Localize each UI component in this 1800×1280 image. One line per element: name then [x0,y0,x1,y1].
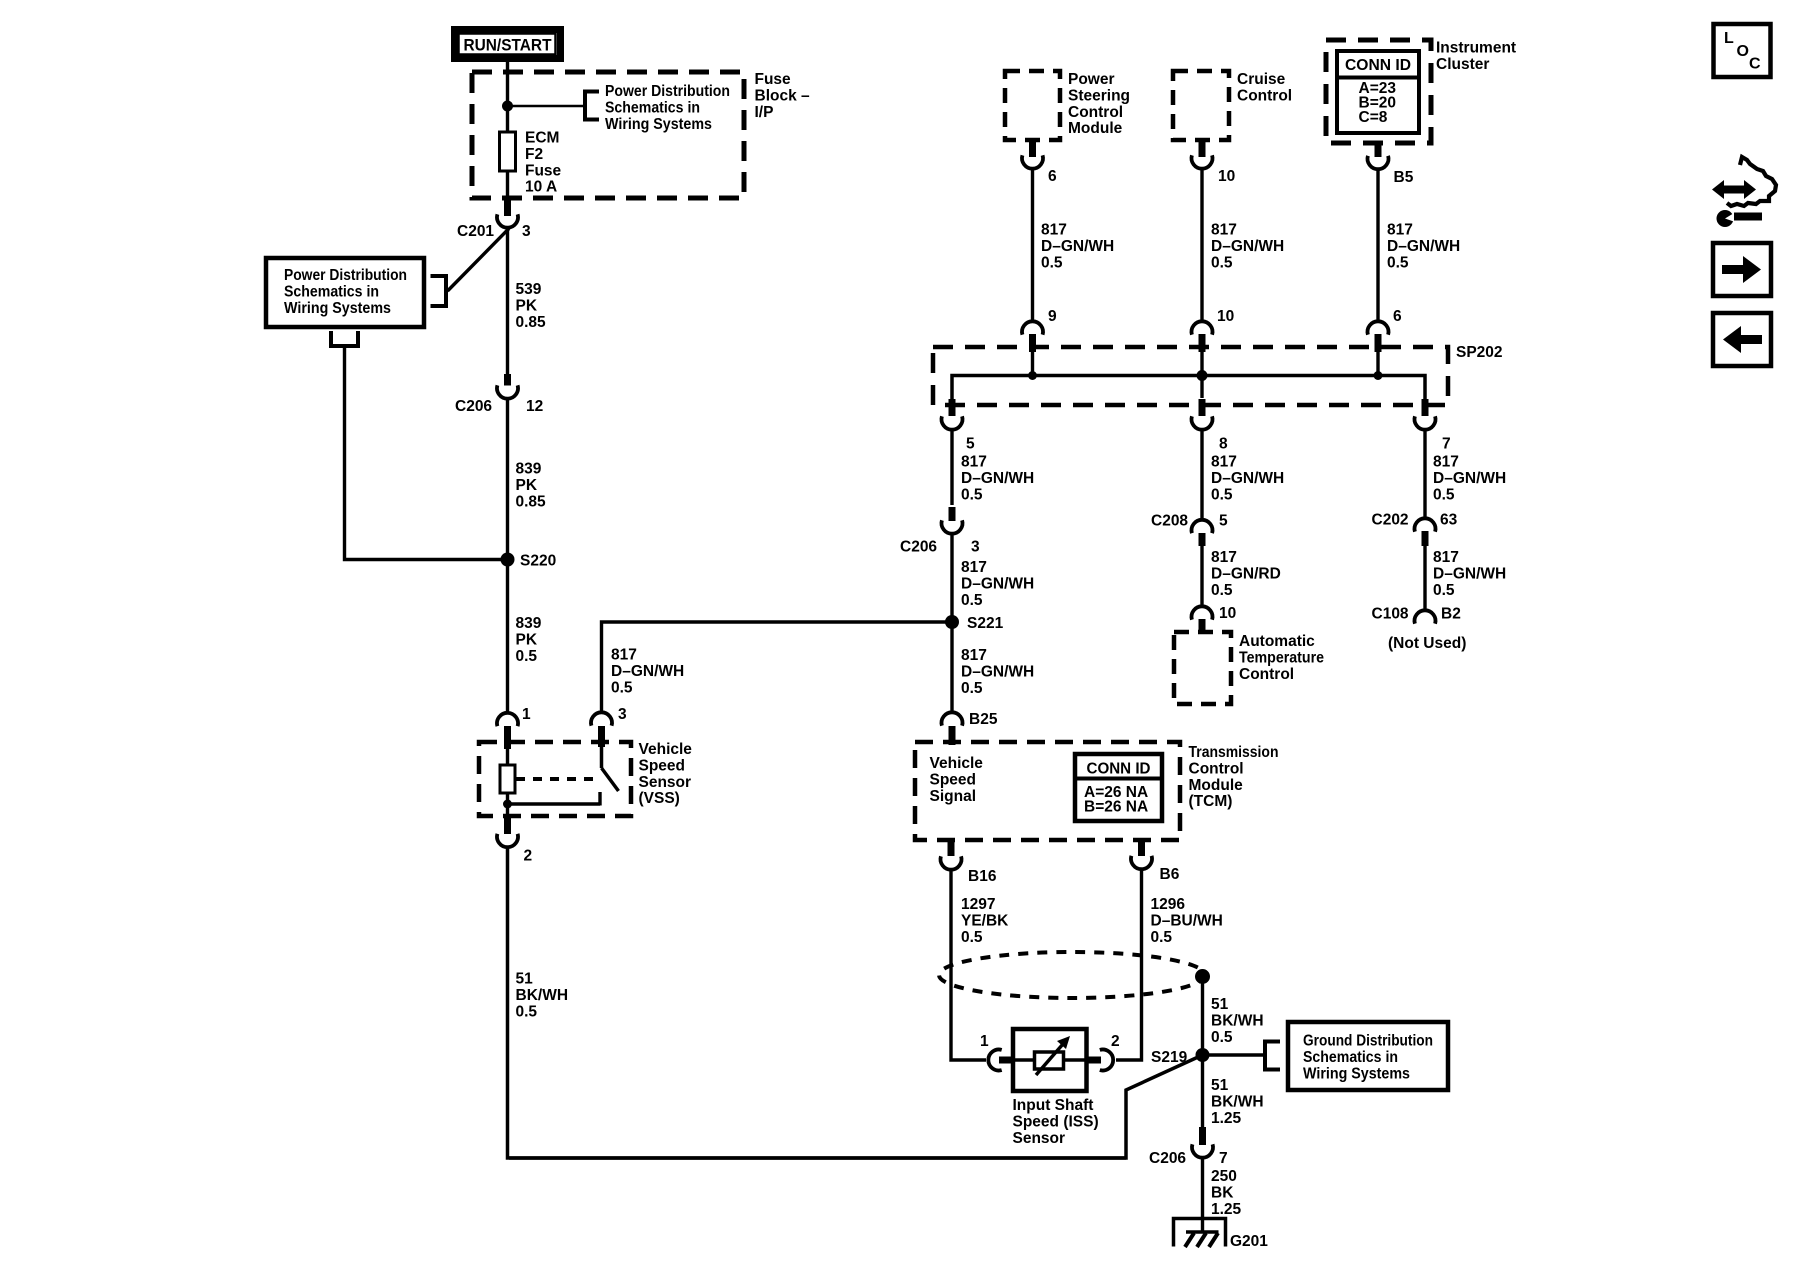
svg-text:250: 250 [1211,1168,1237,1185]
svg-text:9: 9 [1048,308,1057,325]
connector TCM pin B16 [941,839,997,885]
svg-text:7: 7 [1442,436,1451,453]
svg-text:D–GN/WH: D–GN/WH [1433,470,1506,487]
svg-text:Vehicle: Vehicle [930,755,984,772]
svg-text:L: L [1724,30,1734,47]
connector C201 pin 3 [457,198,531,240]
svg-text:0.5: 0.5 [1211,582,1233,599]
icon powertrain reference [1712,157,1776,227]
svg-text:Sensor: Sensor [1013,1130,1066,1147]
svg-text:3: 3 [618,706,627,723]
splice pack SP202 dashed box [933,344,1503,405]
svg-text:817: 817 [1211,222,1237,239]
svg-text:0.5: 0.5 [516,1003,538,1020]
svg-text:817: 817 [1433,454,1459,471]
icon back arrow box [1713,313,1771,366]
table CONN ID (TCM) [1075,754,1162,821]
svg-text:Input Shaft: Input Shaft [1013,1097,1094,1114]
node fuse block tap junction [502,101,513,112]
svg-text:817: 817 [961,559,987,576]
module Power Steering Control dashed box [1005,71,1130,140]
svg-text:PK: PK [516,297,538,314]
svg-text:5: 5 [966,436,975,453]
connector C108 pin B2 (not used) [1372,606,1467,653]
svg-text:Block –: Block – [755,87,811,104]
module Transmission Control Module dashed box [915,742,1279,840]
svg-text:0.5: 0.5 [611,679,633,696]
connector ISS pin 2 [1087,1033,1120,1071]
svg-text:(TCM): (TCM) [1189,793,1233,810]
node SP202 junction 9 [1028,371,1037,380]
svg-text:6: 6 [1393,308,1402,325]
svg-text:Wiring Systems: Wiring Systems [1303,1065,1410,1082]
connector C206 pin 3 [900,507,980,556]
svg-text:0.5: 0.5 [1151,929,1173,946]
svg-text:Control: Control [1239,666,1294,683]
connector SP202 pin 6 [1368,308,1403,352]
wire 1296 D-BU/WH 0.5 (B6 to ISS pin2) [1116,869,1223,1060]
connector SP202 pin 9 [1022,308,1057,352]
svg-text:C108: C108 [1372,606,1409,623]
svg-text:Schematics in: Schematics in [1303,1049,1398,1066]
svg-text:Speed (ISS): Speed (ISS) [1013,1113,1099,1130]
svg-text:S221: S221 [967,615,1004,632]
svg-text:2: 2 [524,848,533,865]
svg-text:0.5: 0.5 [961,929,983,946]
svg-text:7: 7 [1219,1150,1228,1167]
wire 817 D-GN/WH 0.5 (SP202-5 to C206) [952,430,1034,506]
svg-text:C206: C206 [900,539,937,556]
svg-text:C: C [1749,56,1761,73]
svg-text:Speed: Speed [639,757,686,774]
resistor VSS sense element [500,765,515,793]
wire 839 PK 0.85 [508,399,547,561]
svg-text:S220: S220 [520,553,556,570]
svg-text:2: 2 [1111,1033,1120,1050]
connector C206 pin 7 [1149,1127,1228,1167]
svg-text:D–GN/WH: D–GN/WH [611,663,684,680]
wire S219 to bottom return run [509,1055,1203,1158]
svg-text:B2: B2 [1441,606,1461,623]
svg-text:3: 3 [971,539,980,556]
svg-text:Vehicle: Vehicle [639,741,693,758]
wire VSS resistor to common [506,793,509,818]
svg-text:Signal: Signal [930,788,977,805]
wire 817 D-GN/WH 0.5 (SP202-7 to C202) [1425,430,1506,519]
svg-text:Speed: Speed [930,771,977,788]
svg-text:3: 3 [522,223,531,240]
svg-text:B6: B6 [1160,866,1180,883]
wire 817 D-GN/WH 0.5 (power steering to SP202) [1033,169,1115,322]
wire 817 D-GN/RD 0.5 (C208 to ATC) [1202,546,1281,607]
wire 817 D-GN/WH 0.5 (SP202-8 to C208) [1202,430,1284,521]
svg-text:10: 10 [1219,605,1236,622]
wire reference box to S220 [345,346,505,560]
svg-text:1296: 1296 [1151,896,1186,913]
wire 817 D-GN/WH 0.5 (S221 to B25) [952,622,1034,713]
node shield drain junction [1195,969,1210,984]
svg-text:817: 817 [1041,222,1067,239]
svg-text:817: 817 [1387,222,1413,239]
svg-text:0.85: 0.85 [516,493,547,510]
svg-text:10: 10 [1217,308,1234,325]
reference box Ground Distribution Schematics [1288,1022,1448,1090]
svg-text:C202: C202 [1372,512,1409,529]
connector VSS pin 1 [497,706,531,749]
svg-text:D–GN/WH: D–GN/WH [1211,470,1284,487]
svg-text:D–GN/WH: D–GN/WH [1387,238,1460,255]
svg-text:BK/WH: BK/WH [1211,1012,1264,1029]
svg-text:0.5: 0.5 [1211,1029,1233,1046]
svg-text:0.5: 0.5 [961,592,983,609]
connector SP202 pin 10 [1192,308,1235,352]
switch VSS reed contact [602,745,619,791]
module Automatic Temperature Control dashed box [1174,632,1324,704]
svg-text:B5: B5 [1394,169,1414,186]
svg-text:CONN ID: CONN ID [1345,57,1411,74]
svg-text:1297: 1297 [961,896,995,913]
wire 1297 YE/BK 0.5 (B16 to ISS pin1) [951,870,1009,1061]
reference box Power Distribution Schematics [266,258,424,327]
svg-text:C208: C208 [1151,513,1188,530]
svg-text:SP202: SP202 [1456,344,1503,361]
svg-text:817: 817 [961,647,987,664]
sensor Input Shaft Speed ISS box [1013,1029,1099,1147]
shield twisted pair dashed loop [939,952,1205,998]
svg-text:0.5: 0.5 [961,680,983,697]
reference tab below Power Distribution box [329,331,360,346]
connector ISS pin 1 [980,1033,1014,1071]
svg-text:D–GN/WH: D–GN/WH [961,470,1034,487]
svg-text:0.5: 0.5 [961,486,983,503]
reference tab right of Power Distribution box [431,276,447,306]
svg-text:D–GN/WH: D–GN/WH [1041,238,1114,255]
svg-text:0.5: 0.5 [1041,254,1063,271]
wire 817 D-GN/WH 0.5 (C206 to S221) [952,534,1034,623]
svg-text:51: 51 [1211,996,1229,1013]
svg-text:BK: BK [1211,1184,1234,1201]
svg-text:817: 817 [1211,549,1237,566]
linkage VSS dashed coupling [516,777,597,781]
wire VSS pin1 lead [506,746,509,766]
svg-text:PK: PK [516,477,538,494]
connector SP202 pin 5 [942,399,976,453]
connector TCM pin B6 [1131,839,1180,883]
svg-text:6: 6 [1048,168,1057,185]
svg-text:ECM: ECM [525,130,559,147]
svg-text:51: 51 [1211,1077,1229,1094]
svg-text:Cluster: Cluster [1436,56,1489,73]
svg-text:12: 12 [526,398,543,415]
svg-text:Power Distribution: Power Distribution [284,267,407,284]
svg-text:D–GN/RD: D–GN/RD [1211,565,1281,582]
svg-text:Wiring Systems: Wiring Systems [284,300,391,317]
svg-text:C=8: C=8 [1359,109,1388,126]
module Cruise Control dashed box [1173,71,1292,140]
svg-text:1.25: 1.25 [1211,1201,1242,1218]
svg-text:C201: C201 [457,223,494,240]
fuse F2 ECM 10A [500,130,562,196]
svg-text:D–BU/WH: D–BU/WH [1151,912,1223,929]
svg-text:C206: C206 [455,398,492,415]
connector VSS pin 3 [591,706,627,747]
svg-text:B16: B16 [968,868,997,885]
wire 51 BK/WH 0.5 (VSS pin2 to splice) [508,847,1127,1158]
svg-text:Schematics in: Schematics in [284,283,379,300]
wire 539 PK 0.85 [508,228,547,377]
reference tab Power Distribution (in fuse block) [585,83,730,133]
svg-text:8: 8 [1219,436,1228,453]
wire 817 D-GN/WH 0.5 (cruise to SP202) [1202,169,1284,322]
svg-text:G201: G201 [1230,1233,1268,1250]
svg-text:817: 817 [961,454,987,471]
svg-text:839: 839 [516,615,542,632]
connector TCM pin B25 [942,711,998,745]
wire 817 D-GN/WH 0.5 (C202 to C108) [1425,544,1506,611]
svg-text:Cruise: Cruise [1237,71,1286,88]
svg-text:C206: C206 [1149,1150,1186,1167]
svg-text:Transmission: Transmission [1189,744,1279,761]
resistor ISS variable element [1013,1036,1087,1075]
svg-text:PK: PK [516,631,538,648]
svg-text:F2: F2 [525,146,543,163]
connector SP202 pin 8 [1192,399,1228,453]
svg-text:0.5: 0.5 [1387,254,1409,271]
svg-text:(Not Used): (Not Used) [1388,635,1466,652]
svg-text:1: 1 [980,1033,989,1050]
svg-text:10 A: 10 A [525,179,557,196]
wire 817 D-GN/WH 0.5 (VSS to S221) [602,622,950,713]
wire RUN/START to fuse F2 [506,62,509,133]
node SP202 junction 10 [1197,370,1208,381]
wire 817 D-GN/WH 0.5 (cluster to SP202) [1378,169,1460,322]
svg-text:B25: B25 [969,711,998,728]
svg-text:Schematics in: Schematics in [605,99,700,116]
module Instrument Cluster dashed box [1326,40,1516,144]
svg-text:D–GN/WH: D–GN/WH [1433,565,1506,582]
wire reference tab to C201 splice [448,229,510,292]
svg-text:YE/BK: YE/BK [961,912,1009,929]
svg-text:51: 51 [516,971,534,988]
svg-text:D–GN/WH: D–GN/WH [961,575,1034,592]
switch RUN/START (ignition feed) [455,30,561,59]
svg-text:0.85: 0.85 [516,314,547,331]
wire 51 BK/WH 1.25 (S219 to C206) [1203,1055,1264,1128]
svg-text:RUN/START: RUN/START [464,37,552,55]
svg-text:Automatic: Automatic [1239,633,1315,650]
fuse block I/P dashed box [472,71,810,198]
icon LOC legend box [1714,24,1771,77]
svg-text:Control: Control [1189,760,1244,777]
svg-text:0.5: 0.5 [516,648,538,665]
vehicle speed sensor VSS dashed box [479,741,692,816]
table CONN ID (instrument cluster) [1337,51,1419,133]
svg-text:Control: Control [1237,87,1292,104]
wire fuse F2 to C201 [506,171,509,199]
svg-text:Sensor: Sensor [639,774,692,791]
wire 839 PK 0.5 [508,560,542,714]
svg-text:Module: Module [1189,777,1244,794]
ground G201 [1174,1219,1269,1251]
svg-text:839: 839 [516,461,542,478]
svg-text:63: 63 [1440,512,1458,529]
wire 250 BK 1.25 (C206 to G201) [1203,1158,1242,1233]
icon forward arrow box [1713,243,1771,296]
connector ATC pin 10 [1192,605,1237,634]
svg-text:Temperature: Temperature [1239,649,1324,666]
connector SP202 pin 7 [1415,399,1451,453]
svg-text:CONN ID: CONN ID [1087,761,1151,778]
svg-text:0.5: 0.5 [1433,582,1455,599]
svg-text:Fuse: Fuse [525,162,562,179]
svg-text:Power Distribution: Power Distribution [605,83,730,100]
svg-text:Instrument: Instrument [1436,40,1516,57]
wire 51 BK/WH 0.5 (drain to S219) [1203,977,1264,1056]
svg-text:539: 539 [516,281,542,298]
node SP202 junction 6 [1374,371,1383,380]
connector C208 pin 5 [1151,513,1228,547]
node S221 splice [945,615,1004,632]
connector C206 pin 12 [455,374,543,415]
svg-text:(VSS): (VSS) [639,790,680,807]
svg-text:Fuse: Fuse [755,71,792,88]
svg-text:5: 5 [1219,513,1228,530]
svg-text:I/P: I/P [755,104,774,121]
svg-text:BK/WH: BK/WH [516,987,569,1004]
svg-text:B=26 NA: B=26 NA [1084,799,1148,816]
reference tab Ground Distribution [1265,1042,1280,1070]
node S220 splice [501,553,557,570]
svg-text:817: 817 [611,647,637,664]
wire tap to power distribution tab [508,105,586,108]
svg-text:BK/WH: BK/WH [1211,1093,1264,1110]
node VSS internal junction [503,800,512,809]
svg-text:0.5: 0.5 [1211,486,1233,503]
svg-text:817: 817 [1433,549,1459,566]
svg-text:O: O [1737,43,1749,60]
connector cruise control pin 10 [1192,140,1236,185]
svg-text:817: 817 [1211,454,1237,471]
wire S219 to ground distribution tab [1203,1053,1266,1056]
svg-text:Control: Control [1068,104,1123,121]
connector power steering pin 6 [1022,140,1057,185]
connector VSS pin 2 [497,816,532,865]
wire SP202 internal bus [952,352,1425,416]
svg-text:1: 1 [522,706,531,723]
wire VSS common link [508,792,601,806]
connector instrument cluster pin B5 [1367,143,1413,186]
svg-text:Wiring Systems: Wiring Systems [605,116,712,133]
svg-text:10: 10 [1218,168,1235,185]
svg-text:D–GN/WH: D–GN/WH [961,663,1034,680]
svg-text:D–GN/WH: D–GN/WH [1211,238,1284,255]
svg-text:0.5: 0.5 [1211,254,1233,271]
svg-text:1.25: 1.25 [1211,1110,1242,1127]
svg-text:Steering: Steering [1068,87,1130,104]
svg-text:Power: Power [1068,71,1115,88]
connector C202 pin 63 [1372,512,1458,547]
svg-text:0.5: 0.5 [1433,486,1455,503]
svg-text:Ground Distribution: Ground Distribution [1303,1033,1433,1050]
svg-text:Module: Module [1068,120,1123,137]
node S219 splice [1151,1048,1210,1066]
